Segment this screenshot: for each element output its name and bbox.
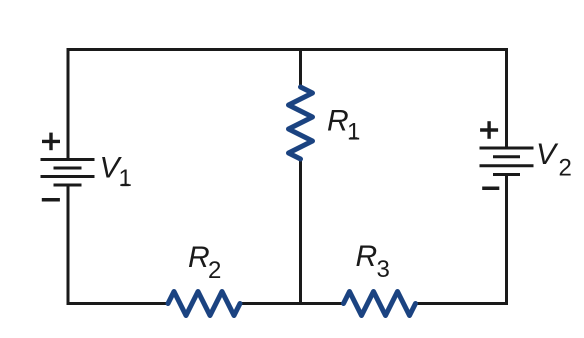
svg-text:1: 1 bbox=[119, 165, 132, 192]
resistor R2 (horizontal zigzag) bbox=[168, 292, 240, 316]
V2 minus sign bbox=[482, 187, 499, 191]
wire: top rail with left and right drops to battery top plates bbox=[68, 50, 507, 160]
svg-text:R: R bbox=[356, 240, 378, 273]
wire: bottom right segment (R3 to V2) bbox=[416, 175, 507, 304]
wire: middle branch top (node to R1) bbox=[299, 48, 302, 89]
resistor R1 (vertical zigzag) bbox=[289, 87, 313, 159]
V2 plus sign bbox=[480, 121, 498, 139]
V1 minus sign bbox=[42, 198, 60, 202]
wire: bottom middle segment (R2 to R3 through bottom node) bbox=[240, 302, 344, 305]
wire: bottom left segment (V1 to R2) bbox=[68, 185, 168, 304]
svg-text:R: R bbox=[188, 241, 210, 274]
V1 plus sign bbox=[42, 133, 60, 151]
resistor R3 (horizontal zigzag) bbox=[344, 292, 416, 316]
svg-text:3: 3 bbox=[377, 256, 390, 283]
svg-text:V: V bbox=[536, 138, 559, 171]
svg-text:2: 2 bbox=[559, 155, 572, 182]
svg-text:2: 2 bbox=[208, 257, 221, 284]
wire: middle branch bottom (R1 to bottom node) bbox=[299, 157, 302, 305]
svg-text:1: 1 bbox=[347, 119, 360, 146]
battery V2 bbox=[480, 148, 534, 175]
svg-text:R: R bbox=[327, 105, 349, 138]
battery V1 bbox=[41, 160, 95, 186]
